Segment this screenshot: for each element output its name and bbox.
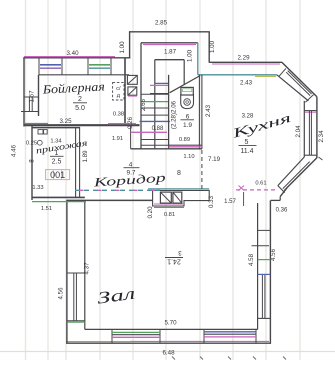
stair upper treads xyxy=(155,82,169,84)
svg-text:0.33: 0.33 xyxy=(208,195,215,208)
svg-text:7.19: 7.19 xyxy=(208,156,221,163)
svg-text:2.5: 2.5 xyxy=(52,159,62,166)
wall protrusion left outer xyxy=(129,31,131,58)
wall boiler inner left xyxy=(38,75,40,116)
svg-text:4.46: 4.46 xyxy=(11,144,18,157)
svg-text:0.61: 0.61 xyxy=(255,180,266,186)
svg-text:2.43: 2.43 xyxy=(205,104,212,117)
wall prihozhaya left outer xyxy=(31,126,33,200)
svg-text:2.04: 2.04 xyxy=(295,125,302,138)
window zal left wall xyxy=(67,272,85,274)
symbol s/d dashed box xyxy=(113,83,124,100)
bay window bottom-right segment xyxy=(287,158,317,188)
wall stair enclosure xyxy=(155,59,184,61)
svg-text:2.65: 2.65 xyxy=(140,98,147,111)
wall boiler top outer xyxy=(24,56,115,58)
stair left rail xyxy=(140,43,142,149)
svg-text:8: 8 xyxy=(177,170,181,177)
svg-text:0.36: 0.36 xyxy=(276,207,288,213)
svg-text:0.81: 0.81 xyxy=(164,212,175,218)
wall zal right outer xyxy=(269,200,271,343)
svg-text:001: 001 xyxy=(50,170,65,180)
wall zal left inner xyxy=(84,200,86,329)
bay window top-right segment xyxy=(282,62,317,97)
wall protrusion inner xyxy=(141,42,198,44)
wall zal bottom outer xyxy=(66,342,271,344)
svg-text:4.56: 4.56 xyxy=(57,287,64,300)
svg-text:2.34: 2.34 xyxy=(318,130,325,143)
svg-text:2: 2 xyxy=(78,96,82,103)
svg-text:8: 8 xyxy=(29,159,36,163)
svg-text:4.56: 4.56 xyxy=(270,248,277,261)
svg-text:1.00: 1.00 xyxy=(187,49,194,62)
wall zal right inner xyxy=(257,203,259,330)
toilet xyxy=(181,94,194,109)
svg-text:0.38: 0.38 xyxy=(113,112,124,118)
window boiler left wall xyxy=(24,96,39,98)
door swing magenta xyxy=(131,131,167,133)
wall wc bottom xyxy=(169,144,202,146)
window boiler-top W1 xyxy=(38,58,40,75)
svg-text:(2.28)2.06: (2.28)2.06 xyxy=(171,100,178,129)
svg-text:1.67: 1.67 xyxy=(29,90,36,103)
vent squares in box xyxy=(160,192,171,203)
wall protrusion right outer xyxy=(208,32,210,63)
svg-text:3.28: 3.28 xyxy=(242,113,254,119)
svg-text:6.48: 6.48 xyxy=(162,350,175,357)
svg-text:1.9: 1.9 xyxy=(183,122,192,129)
svg-text:5.70: 5.70 xyxy=(164,320,177,327)
wall wc diagonal xyxy=(170,76,200,93)
wall zal top-left xyxy=(67,199,153,201)
vent shaft squares (top, near boiler) xyxy=(127,75,137,84)
fixture prihozhaya top boxes xyxy=(38,130,43,134)
svg-text:Коридор: Коридор xyxy=(92,171,166,190)
wall kitchen top outer xyxy=(209,61,282,63)
wall prihozhaya right xyxy=(75,127,77,198)
bottom ticks xyxy=(172,357,175,360)
svg-text:Зал: Зал xyxy=(96,284,136,308)
svg-text:1.33: 1.33 xyxy=(32,185,43,191)
opening dashes kitchen-zal xyxy=(236,189,277,191)
svg-text:1.00: 1.00 xyxy=(119,41,126,54)
wall protrusion top outer xyxy=(129,31,210,33)
svg-text:2.85: 2.85 xyxy=(155,20,168,27)
wall left outer (boiler) xyxy=(23,58,25,127)
svg-text:0.20: 0.20 xyxy=(147,206,154,219)
svg-text:4.37: 4.37 xyxy=(83,262,90,275)
window zal right wall xyxy=(258,229,271,231)
svg-text:2.29: 2.29 xyxy=(237,55,250,62)
svg-text:Бойлерная: Бойлерная xyxy=(41,79,105,96)
svg-text:д: д xyxy=(117,93,121,99)
svg-text:4.58: 4.58 xyxy=(248,253,255,266)
svg-text:3.25: 3.25 xyxy=(59,118,72,125)
room label 3/24.1 zal (upside down) xyxy=(165,249,183,265)
door boiler leaf xyxy=(130,126,132,149)
svg-text:1.89: 1.89 xyxy=(82,150,89,163)
stamp 001 xyxy=(46,170,70,180)
opening dashes kitchen-corridor vertical xyxy=(201,150,203,189)
scan mark bottom-left xyxy=(0,353,9,361)
window zal bottom left xyxy=(111,329,113,343)
svg-text:1.10: 1.10 xyxy=(183,154,194,160)
svg-text:3.40: 3.40 xyxy=(66,50,79,57)
stair treads xyxy=(141,93,169,95)
wall wc left xyxy=(168,75,170,149)
svg-text:0.88: 0.88 xyxy=(152,126,164,132)
wall corridor top / boiler bottom xyxy=(24,124,140,126)
wall boiler right xyxy=(124,58,126,126)
wall prihozhaya top xyxy=(32,127,80,129)
bay window right vertical segment xyxy=(316,97,318,158)
svg-text:0.89: 0.89 xyxy=(179,137,190,143)
svg-text:5.0: 5.0 xyxy=(75,105,85,112)
opening dashes corridor-zal xyxy=(75,189,160,191)
svg-text:1.91: 1.91 xyxy=(112,136,123,142)
svg-text:24.1: 24.1 xyxy=(167,258,181,265)
stair mid rail xyxy=(154,60,156,149)
tick mark near bay corner xyxy=(319,157,323,160)
svg-text:1.57: 1.57 xyxy=(224,199,236,205)
wall boiler inner top xyxy=(39,74,130,76)
wall zal left outer xyxy=(66,200,68,344)
wall/vent box zal top-right xyxy=(148,188,209,190)
window zal bottom right xyxy=(203,329,205,343)
svg-text:1.87: 1.87 xyxy=(164,48,177,55)
svg-text:0.26: 0.26 xyxy=(127,116,134,129)
edge mark left xyxy=(0,203,4,207)
svg-text:1.51: 1.51 xyxy=(41,206,52,212)
window boiler-top W2 xyxy=(87,58,89,75)
wall wc right xyxy=(198,75,200,149)
svg-text:2.43: 2.43 xyxy=(240,80,253,87)
svg-text:c/: c/ xyxy=(116,86,121,92)
wall step below bay xyxy=(279,197,281,201)
wall kitchen top inner xyxy=(198,74,277,76)
wall corridor bottom xyxy=(131,148,202,150)
wall prihozhaya bottom xyxy=(32,196,85,198)
svg-text:1.00: 1.00 xyxy=(209,40,216,53)
wall zal bottom inner xyxy=(85,328,258,330)
svg-text:3: 3 xyxy=(178,249,182,255)
svg-text:Кухня: Кухня xyxy=(229,110,293,141)
svg-text:11.4: 11.4 xyxy=(240,148,253,155)
